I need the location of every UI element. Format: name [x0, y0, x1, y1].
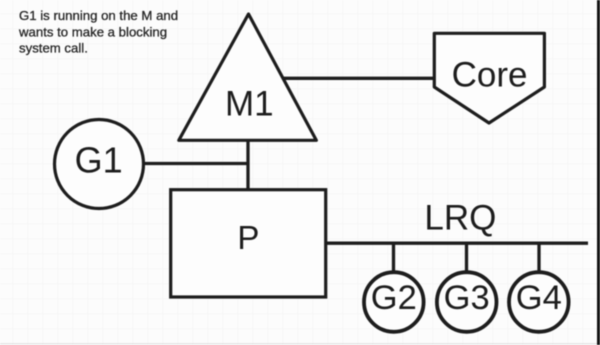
rectangle P	[171, 190, 326, 297]
circle G1	[55, 120, 144, 209]
svg-text:G1 is running on the M and: G1 is running on the M and	[19, 8, 178, 23]
right frame bar	[597, 0, 600, 345]
wire G1 to M1/P stem	[140, 162, 249, 165]
svg-text:LRQ: LRQ	[424, 199, 496, 238]
pentagon Core	[434, 33, 544, 123]
wire M1 to Core	[276, 77, 436, 80]
svg-text:M1: M1	[225, 84, 274, 123]
svg-text:system call.: system call.	[19, 41, 88, 56]
wire tick to G4	[537, 243, 540, 272]
caption text	[18, 8, 178, 56]
circle G2	[364, 272, 424, 332]
circle G3	[437, 272, 497, 332]
svg-text:G3: G3	[444, 279, 490, 317]
wire tick to G3	[465, 243, 468, 272]
triangle M1	[179, 14, 316, 140]
svg-text:G4: G4	[516, 279, 562, 317]
bottom edge line	[0, 343, 600, 344]
wire M1 base to P top	[246, 140, 249, 190]
svg-text:P: P	[237, 219, 259, 256]
circle G4	[509, 272, 569, 332]
wire tick to G2	[392, 243, 395, 272]
wire LRQ bus	[325, 242, 588, 245]
svg-text:Core: Core	[452, 56, 528, 95]
svg-text:G1: G1	[75, 139, 123, 180]
svg-text:wants to make a blocking: wants to make a blocking	[18, 24, 167, 39]
svg-text:G2: G2	[371, 279, 417, 317]
